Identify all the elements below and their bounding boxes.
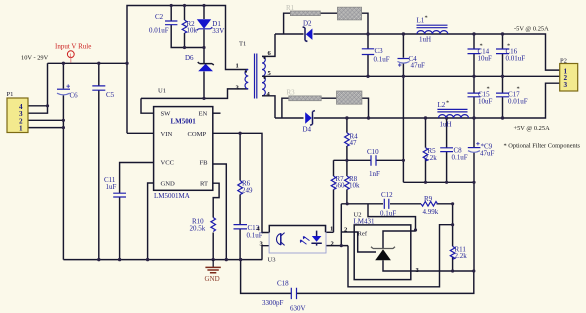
resistor R3 (snubber, not stuffed)	[287, 89, 322, 101]
capacitor C18	[262, 280, 306, 313]
wire VIN pin stub	[127, 132, 154, 134]
svg-text:U1: U1	[158, 88, 166, 95]
wire +5V rail	[275, 83, 560, 118]
svg-text:10k: 10k	[187, 27, 198, 35]
svg-text:10k: 10k	[349, 182, 360, 190]
svg-text:T1: T1	[239, 41, 246, 48]
svg-text:*: *	[487, 86, 490, 93]
svg-text:+5V @ 0.25A: +5V @ 0.25A	[514, 125, 551, 132]
capacitor C8	[440, 147, 468, 162]
inductor L2	[437, 100, 468, 129]
svg-text:P2: P2	[560, 58, 567, 65]
svg-text:1nF: 1nF	[369, 170, 380, 178]
wire R7 column	[333, 160, 335, 232]
svg-text:R1: R1	[286, 4, 295, 12]
wire U2 pin3 line	[411, 270, 474, 272]
svg-text:1: 1	[236, 63, 239, 70]
svg-text:R9: R9	[424, 195, 433, 203]
resistor R5	[423, 147, 437, 162]
svg-text:D6: D6	[185, 54, 194, 62]
capacitor C14	[468, 43, 493, 63]
capacitor C6	[57, 84, 78, 99]
wire R6 C13 column	[239, 133, 241, 259]
capacitor C15	[468, 86, 493, 106]
svg-text:L2: L2	[438, 101, 446, 109]
svg-text:Ref: Ref	[358, 231, 368, 238]
capacitor C11	[104, 176, 126, 197]
capacitor C9	[468, 142, 495, 158]
node common rail junctions	[366, 75, 504, 78]
svg-text:EN: EN	[199, 111, 208, 118]
svg-text:0.01uF: 0.01uF	[506, 55, 526, 63]
wire EN stub	[213, 112, 221, 114]
wire U2 pin2 stub	[341, 231, 354, 233]
svg-text:* Optional Filter Components: * Optional Filter Components	[504, 143, 581, 150]
wire R11 column	[452, 204, 454, 271]
svg-text:249: 249	[242, 187, 253, 195]
capacitor C4	[398, 55, 426, 70]
svg-text:*: *	[446, 100, 449, 107]
svg-text:*: *	[507, 43, 510, 50]
capacitor C1 (snubber block, not stuffed)	[337, 7, 361, 20]
svg-text:LM5001MA: LM5001MA	[154, 192, 190, 200]
svg-text:C3: C3	[375, 47, 384, 55]
svg-text:FB: FB	[200, 159, 209, 166]
wire SW net horizontal	[141, 89, 248, 99]
label input voltage range	[21, 55, 49, 62]
shunt regulator U2 LM431	[344, 212, 420, 280]
svg-text:C18: C18	[277, 280, 289, 288]
svg-text:VIN: VIN	[161, 131, 173, 138]
svg-text:47uF: 47uF	[480, 150, 495, 158]
diode D4	[303, 111, 315, 134]
wire C18 riser and bottom line	[241, 260, 474, 294]
label +5V output	[514, 125, 551, 132]
resistor R8	[345, 175, 360, 190]
wire C5 column	[98, 63, 100, 259]
wire ground rail	[63, 259, 262, 261]
wire R5 column	[425, 118, 427, 182]
wire Ref loop bottom	[348, 225, 453, 287]
svg-text:1: 1	[19, 125, 23, 133]
wire C6 column input to ground rail	[62, 63, 64, 259]
svg-text:D4: D4	[303, 126, 312, 134]
svg-text:C5: C5	[106, 91, 115, 99]
svg-text:LM5001: LM5001	[171, 118, 197, 126]
svg-text:20.5k: 20.5k	[190, 225, 206, 233]
node feedback junctions	[340, 159, 476, 273]
svg-text:0.1uF: 0.1uF	[452, 154, 468, 162]
svg-text:1uH: 1uH	[440, 121, 452, 129]
svg-text:*: *	[480, 43, 483, 50]
inductor L1	[417, 15, 448, 44]
svg-text:4.99k: 4.99k	[423, 208, 439, 216]
wire D1 D6 column	[203, 6, 205, 99]
wire secondary pin6 riser	[262, 34, 275, 56]
capacitor C3	[362, 47, 390, 64]
wire FB column to ground	[213, 164, 227, 260]
node clamp rail junctions	[170, 4, 206, 100]
wire P1 pin1 lead	[28, 127, 63, 129]
wire secondary pin5 common rail	[262, 75, 560, 77]
wire node X line with C10	[334, 159, 404, 161]
label -5V output	[514, 26, 549, 33]
node input rail junctions	[46, 62, 129, 130]
transformer T1	[236, 41, 272, 99]
capacitor C17	[496, 86, 528, 106]
svg-text:47uF: 47uF	[411, 62, 426, 70]
wire VCC to C11 column	[120, 163, 154, 260]
svg-text:C2: C2	[155, 13, 164, 21]
svg-text:1uF: 1uF	[106, 183, 117, 191]
wire opto pin1 riser to R7	[326, 231, 334, 233]
resistor R6	[238, 180, 253, 195]
wire C2 branch	[171, 6, 204, 48]
node -5V rail junctions	[366, 32, 504, 35]
svg-text:0.01uF: 0.01uF	[508, 98, 528, 106]
wire VIN riser and top clamp rail	[127, 6, 248, 134]
svg-text:GND: GND	[205, 275, 220, 283]
capacitor C10	[367, 148, 380, 178]
wire opto pin2 line	[326, 245, 348, 247]
node +5V rail junctions	[345, 116, 504, 119]
svg-text:GND: GND	[161, 180, 176, 187]
svg-text:COMP: COMP	[188, 131, 207, 138]
diode D2	[303, 20, 313, 42]
wire -5V rail	[275, 34, 560, 70]
wire P1 pin2 lead	[28, 119, 63, 121]
connector P1	[7, 91, 29, 133]
capacitor C16	[496, 43, 525, 63]
svg-text:C6: C6	[70, 92, 79, 100]
node ground rail junctions	[97, 132, 242, 262]
svg-text:0.1uF: 0.1uF	[374, 56, 390, 64]
capacitor C2	[149, 13, 177, 35]
svg-text:0.1uF: 0.1uF	[247, 232, 263, 240]
wire C4 column common to bottoms rail	[402, 34, 404, 182]
svg-text:0.01uF: 0.01uF	[149, 27, 169, 35]
svg-text:10V - 29V: 10V - 29V	[21, 55, 49, 62]
svg-text:2.2k: 2.2k	[425, 154, 438, 162]
wire C8 column	[446, 118, 448, 182]
wire bottom snubber loop	[282, 98, 369, 118]
capacitor C5	[92, 86, 114, 99]
IC U1 LM5001	[154, 88, 213, 201]
svg-text:C10: C10	[367, 148, 379, 156]
wire secondary pin4 riser	[262, 96, 275, 118]
svg-text:630V: 630V	[290, 305, 306, 313]
resistor R9	[421, 195, 439, 216]
probe Input V Rule	[55, 43, 91, 63]
svg-text:*: *	[517, 86, 520, 93]
capacitor C13	[234, 224, 263, 240]
svg-text:Input V Rule: Input V Rule	[55, 43, 91, 51]
wire GND pin to ground rail	[148, 183, 154, 260]
wire C14 C15 C9 long column	[473, 34, 475, 271]
svg-text:*: *	[425, 15, 428, 22]
svg-text:2.2k: 2.2k	[455, 252, 468, 260]
svg-text:0.1uF: 0.1uF	[380, 210, 396, 218]
svg-text:D2: D2	[303, 20, 312, 28]
wire top snubber loop	[284, 13, 368, 34]
wire input rail 10-29V	[48, 62, 128, 64]
svg-text:RT: RT	[200, 180, 208, 187]
svg-text:3300pF: 3300pF	[262, 299, 284, 307]
wire cathode tap W1	[368, 204, 416, 231]
connector P2	[560, 58, 578, 92]
wire COMP line	[213, 133, 269, 232]
resistor R2	[182, 20, 197, 35]
zener D1	[197, 19, 225, 35]
svg-text:10uF: 10uF	[478, 55, 493, 63]
capacitor C7 (snubber block, not stuffed)	[337, 91, 362, 104]
svg-text:C12: C12	[381, 191, 393, 199]
svg-text:P1: P1	[7, 91, 14, 98]
svg-text:33V: 33V	[212, 27, 224, 35]
resistor R1 (snubber, not stuffed)	[286, 4, 320, 16]
resistor R11	[450, 246, 467, 261]
svg-text:VCC: VCC	[161, 159, 175, 166]
wire P1 pin4 lead	[28, 105, 48, 107]
wire Ref left leg	[340, 204, 342, 246]
wire bottoms rail	[403, 181, 474, 183]
svg-text:10uF: 10uF	[478, 98, 493, 106]
label optional filter note	[504, 143, 581, 150]
svg-text:U3: U3	[268, 257, 277, 264]
resistor R7	[331, 175, 345, 190]
svg-text:1uH: 1uH	[419, 36, 431, 44]
wire R8 column	[346, 160, 348, 204]
wire C3 column	[367, 34, 369, 76]
wire RT jog to R10	[213, 183, 219, 259]
svg-text:R3: R3	[287, 89, 296, 97]
svg-text:LM431: LM431	[354, 218, 376, 226]
wire opto pin3 to ground	[262, 246, 269, 260]
wire C16 C17 column	[502, 34, 504, 118]
svg-text:560: 560	[334, 182, 345, 190]
ground symbol GND	[205, 260, 221, 283]
svg-text:3: 3	[564, 81, 568, 89]
svg-text:-5V @ 0.25A: -5V @ 0.25A	[514, 26, 549, 33]
capacitor C12	[380, 191, 396, 218]
resistor R4	[345, 133, 359, 148]
wire C12 R9 line	[341, 203, 452, 205]
resistor R10	[190, 218, 216, 233]
svg-text:47: 47	[350, 139, 358, 147]
zener D6	[185, 54, 214, 71]
wire SW pin stub	[141, 98, 154, 113]
optocoupler U3	[257, 225, 335, 263]
wire R2 branch	[184, 6, 186, 48]
wire R4 column	[346, 118, 348, 160]
svg-text:1: 1	[330, 226, 333, 233]
wire P1 pin3 lead to input riser	[28, 63, 48, 113]
